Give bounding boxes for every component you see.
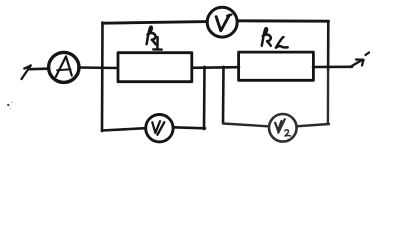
- voltmeter V: [207, 7, 237, 37]
- wire: left branch vertical (node line): [101, 23, 104, 132]
- wire: ammeter to resistor R1: [79, 66, 118, 69]
- resistor R2 box: [239, 52, 314, 80]
- ink dot blemish: [7, 104, 9, 106]
- voltmeter V1: [146, 115, 173, 142]
- wire: mid vertical for V1 right leg: [203, 67, 206, 129]
- wire: left terminal to ammeter: [30, 67, 48, 70]
- wire: voltmeter V to top right corner: [237, 19, 328, 22]
- wire: right terminal arrow: [350, 53, 369, 68]
- wire: bottom left to voltmeter V1: [102, 128, 145, 130]
- wire: voltmeter V2 to right vertical: [297, 124, 330, 126]
- wire: mid vertical to voltmeter V2: [223, 124, 268, 127]
- resistor R1 box: [118, 53, 192, 82]
- ammeter A: [49, 52, 79, 82]
- label R1: [147, 27, 162, 50]
- voltmeter V2: [269, 114, 297, 142]
- wire: mid vertical for V2 left leg: [222, 67, 225, 123]
- wire: left terminal lead squiggle: [22, 65, 31, 79]
- wire: top left horizontal to voltmeter V: [103, 22, 208, 24]
- wire: voltmeter V1 to mid vertical: [173, 127, 205, 128]
- label R2: [262, 28, 288, 47]
- wire: right branch vertical: [327, 21, 330, 70]
- wire: R2 to right terminal: [313, 66, 352, 69]
- wire: between R1 and R2: [193, 66, 239, 69]
